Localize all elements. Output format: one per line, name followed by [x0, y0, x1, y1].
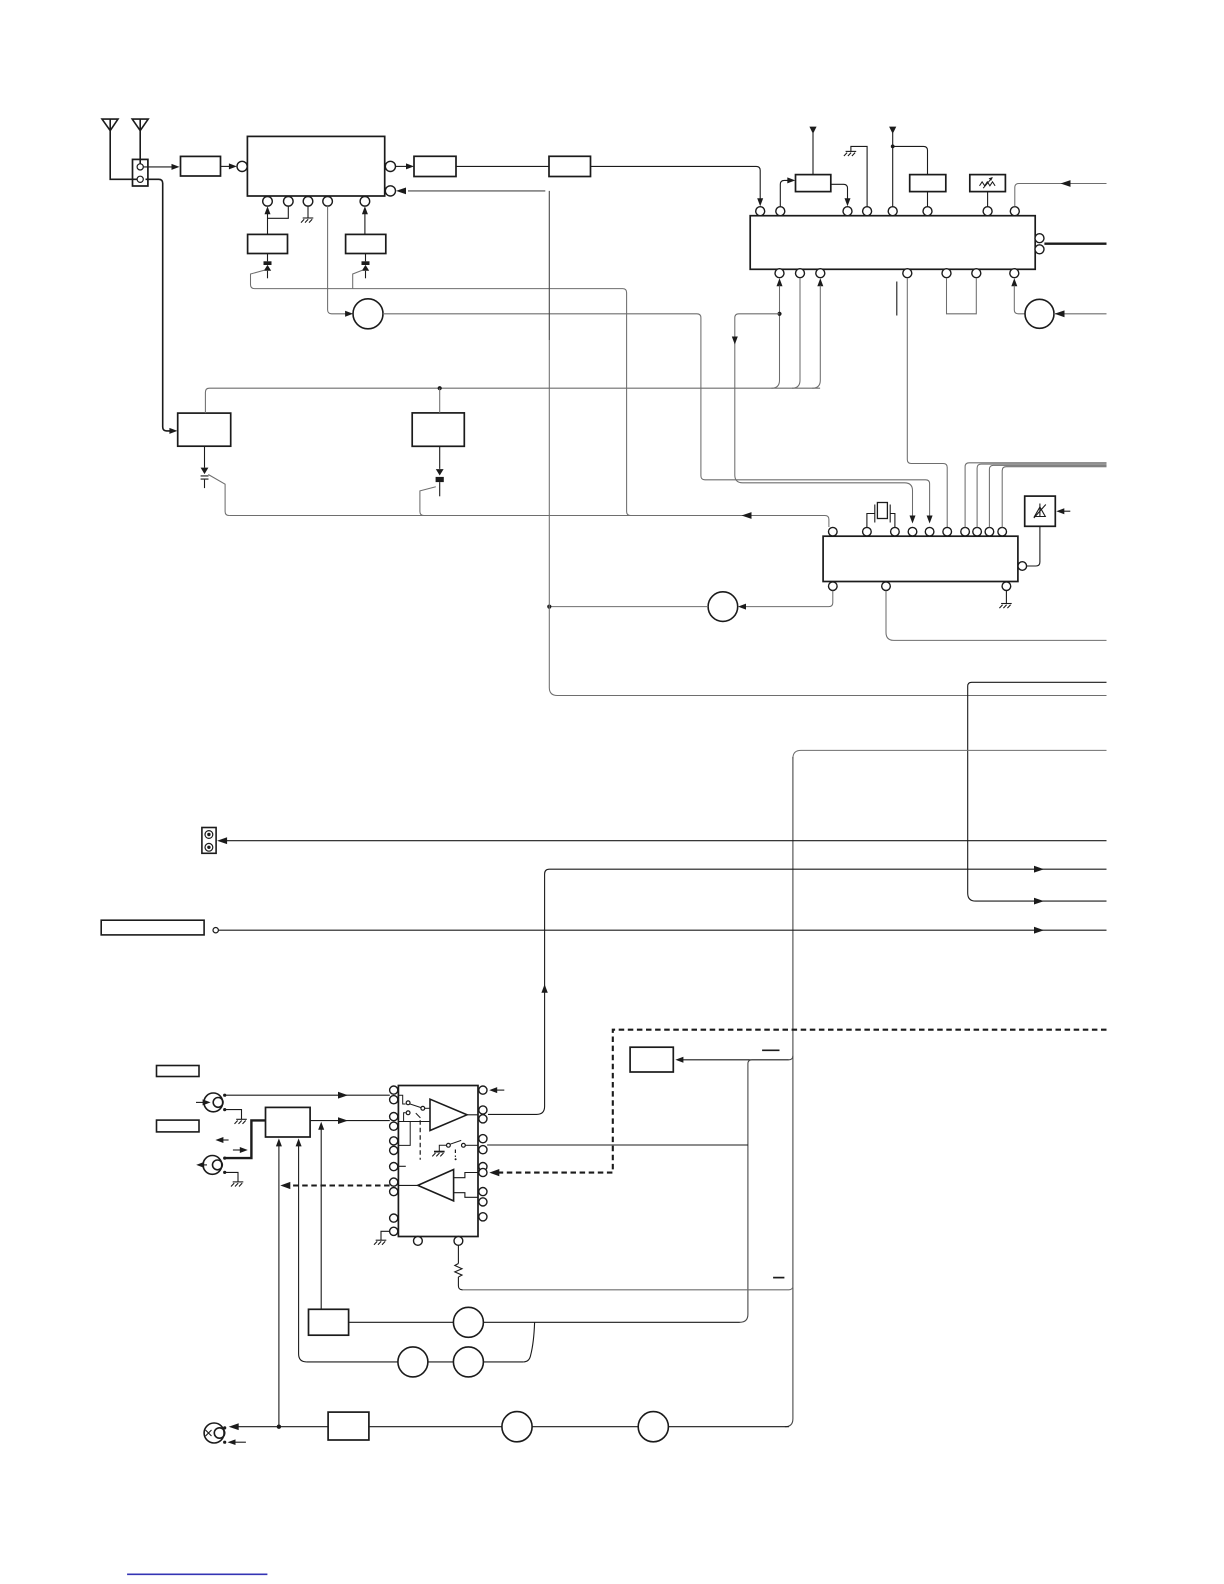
wire into X2 from right [1054, 310, 1107, 317]
supply input arrow above U2 pin5 [889, 127, 896, 207]
wire U2 pin4 to ground [851, 146, 867, 206]
U-link wire U2 bpin5-bpin6 [947, 278, 977, 314]
RCA jack J2 [203, 1156, 222, 1175]
remote sensor line [488, 866, 1107, 1115]
RF amp box [181, 156, 221, 176]
arrow into U2 pin1 [757, 198, 763, 206]
wire U1 pin1 arrow from below [265, 206, 271, 214]
wire U2 pin8 riser to stereo line [1015, 184, 1107, 207]
mid switch contacts [447, 1143, 451, 1147]
antenna switch S1 [133, 159, 148, 186]
U1 bottom pin 2 [284, 197, 294, 207]
tuner IC U1 [247, 136, 384, 196]
arrow up into U2 bpin3 [817, 278, 823, 286]
floating arrow right [233, 1147, 248, 1153]
VCO circle X3 [708, 592, 738, 622]
stub line below U2 [896, 282, 898, 316]
A3 feed vertical 2 with up arrow [296, 1138, 307, 1362]
arrow on dashed line into U4 pin R7 [489, 1169, 499, 1176]
U3 top pin T1 [829, 527, 838, 536]
wire vertical x793 branch to mute box [675, 1056, 793, 1063]
output line arrow into J3 [229, 1423, 239, 1430]
U2 right pin a [1035, 234, 1044, 243]
wire to CN1 with arrow [217, 837, 1106, 844]
wire U2 bpin1 down to supply rail [772, 286, 780, 389]
wire T1 out to U2 pin3 [831, 184, 851, 206]
arrow on VT line pointing left [742, 512, 752, 519]
arrow up joining A3 line [318, 1122, 324, 1130]
wire U1 pin4 to oscillator circle [328, 206, 348, 314]
tuning wire from D4 [420, 487, 436, 516]
label box A1 [157, 1066, 200, 1077]
dash-dot below mid switch [455, 1150, 457, 1161]
U1 bottom pin 4 [323, 197, 333, 207]
wire U2 pin2 to det box [780, 177, 795, 206]
floating arrow into U4 pin R1 [489, 1087, 504, 1093]
junction dot above U2 pin5 [891, 145, 895, 149]
ground inside U4 [432, 1152, 444, 1157]
arrow up into U2 bottom pin1 [777, 278, 783, 286]
filter box T2 [910, 175, 946, 192]
display box DSP [101, 920, 204, 935]
U3 top pin T6 [943, 527, 952, 536]
label tick 1 [762, 1049, 779, 1051]
U4 left pins L1-L11 [390, 1086, 398, 1094]
mech control line with corner [968, 682, 1107, 901]
U2 bottom pin 3 [816, 269, 825, 278]
local osc wire X1 to U3 pin T5 [383, 314, 930, 517]
U2 bottom pin 7 [1010, 269, 1019, 278]
RCA jack J3 (output) [204, 1423, 225, 1443]
U2 top pin 7 [983, 207, 992, 216]
FM coil box B1 [248, 234, 288, 253]
U2 top pin 5 [888, 207, 897, 216]
junction dot on bpin1 wire [777, 312, 781, 316]
resistor R1 under U4 [455, 1245, 463, 1290]
antenna ANT1 [102, 119, 138, 179]
U3 top pin T2 [863, 527, 872, 536]
U1 bottom pin 1 [263, 197, 273, 207]
varactor D2 under B2 [362, 254, 370, 279]
switch contact circle (FM) [137, 164, 143, 170]
U4 L11 ground lead [381, 1231, 390, 1240]
op-amp B output to left pins [398, 1184, 417, 1186]
U2 top pin 8 [1010, 207, 1019, 216]
AM OSC box L2 [412, 413, 464, 446]
speaker output line row3 [237, 1426, 789, 1428]
blue reference underline [127, 1573, 267, 1575]
U2 right pin b [1035, 245, 1044, 254]
op-amp A (upper, right-pointing) [430, 1099, 467, 1130]
ref circle X2 [1025, 299, 1054, 328]
resistor feed line to vertical x793 [462, 1286, 793, 1290]
arrow up into U2 bpin7 [1011, 278, 1017, 286]
output filter circle F5 [638, 1412, 668, 1442]
branch from F1 line down to F2/F3 row [523, 1322, 534, 1362]
arrow on mech line pointing right [1034, 898, 1044, 905]
ground above U2 pin4 [844, 151, 856, 156]
op-amp B feedback to R8/R9 [454, 1193, 478, 1198]
A3 feed vertical 1 with up arrow [276, 1138, 282, 1426]
wire pin1 to coil box B1 [267, 214, 269, 235]
wire U3 B3 to ground [1005, 591, 1007, 604]
U2 bottom pin 5 [942, 269, 951, 278]
op-amp A output to R2/R3 [467, 1114, 478, 1116]
zigzag glyph inside T3 [980, 177, 996, 188]
U4 interior input switch wiring [398, 1095, 430, 1145]
J1 ground lead [225, 1110, 242, 1120]
dashed control line top [496, 1030, 1107, 1173]
label tick 2 [773, 1277, 784, 1279]
junction dot on x549 vertical [547, 605, 551, 609]
U2 bottom pin 4 [903, 269, 912, 278]
wire T3 to U2 pin7 [987, 192, 989, 207]
wire U1 pin5 arrow from coil box B2 [362, 206, 368, 214]
wire RF amp to U1 [221, 163, 237, 169]
ground under U3 B3 [999, 604, 1011, 609]
filter circle F1 [453, 1307, 483, 1337]
U1 bottom pin 5 [360, 197, 370, 207]
supply line U4 R4/R5 to power rail [487, 1144, 748, 1146]
speaker relay box A4 [309, 1309, 349, 1335]
wire antenna switch AM out down to box L1 [146, 179, 172, 431]
IF amp box [549, 156, 591, 176]
RCA jack J1 [204, 1093, 223, 1112]
AM coil box B2 [346, 234, 386, 253]
wire T2 to U2 pin6 [927, 192, 929, 207]
main tuning voltage line VT [229, 516, 829, 528]
wire pin2 branch to pin1 line [268, 206, 289, 218]
power line with corner at x793 [793, 750, 1107, 758]
arrow into box L1 [169, 428, 177, 434]
varactor D1 under B1 [264, 254, 272, 279]
supply input arrow into T1 top [809, 127, 816, 175]
U4 bottom pins [414, 1237, 423, 1246]
J3 terminal dots [223, 1426, 226, 1429]
U2 top pin 1 [756, 207, 765, 216]
junction dot on supply line [438, 386, 442, 390]
wire pin3 to ground [307, 206, 309, 218]
wire U2 bpin4 jog to U3 pin T6 [907, 278, 947, 527]
branch down from mute line at x748 [740, 1060, 752, 1323]
thick signal wire J2 to selector box [225, 1120, 266, 1158]
output mute box A5 [328, 1412, 369, 1440]
varactor D4 under L2 [436, 446, 444, 496]
discriminator box T3 [970, 175, 1006, 192]
U3 top pin T4 [908, 527, 917, 536]
wire U1 out to filter box [396, 163, 415, 169]
U3 top pin T5 [925, 527, 934, 536]
CN1 terminal 1 [205, 831, 213, 839]
switch contact circles inside U4 [406, 1101, 410, 1105]
supply line into L1 top [205, 388, 820, 413]
selector box A3 [266, 1107, 311, 1137]
wire U2 bpin2 down [792, 278, 800, 388]
arrow into U3 pin T4 [910, 516, 916, 524]
AGC feedback wire into U1 [396, 188, 545, 195]
crystal Y1 [867, 503, 895, 528]
label box A2 [157, 1120, 200, 1132]
ground under U1 pin3 [301, 218, 313, 223]
AM RF box L1 [178, 413, 231, 446]
key scan line [218, 927, 1106, 934]
oscillator circle X1 [353, 299, 383, 329]
arrow into oscillator circle [345, 311, 353, 317]
U3 bottom pin B3 [1002, 582, 1011, 591]
op-amp B (lower, left-pointing) [418, 1170, 454, 1201]
PLL IC U3 [823, 536, 1018, 581]
small terminal circle of display box [213, 928, 218, 933]
U1 pin AGC (right bottom) [385, 186, 395, 196]
long vertical bus from U1 AGC down [548, 191, 550, 340]
branch wire to box T2 [893, 146, 928, 174]
wire U2 bpin3 down to supply rail end [812, 286, 820, 389]
U4 right pins R1-R10 [479, 1086, 487, 1094]
J2 terminal dots [223, 1157, 226, 1160]
U3 bottom pin B2 [882, 582, 891, 591]
J1 terminal dots [223, 1094, 226, 1097]
vertical from A3 line down to box A4 [320, 1129, 322, 1309]
filter circle F2 [398, 1347, 428, 1377]
U3 top pin T10 [998, 527, 1007, 536]
wire X3 to serial bus junction [549, 606, 708, 608]
U3 top pin T3 [891, 527, 900, 536]
row2 wire with circles [307, 1361, 524, 1363]
J3 ground lead with small arrow [228, 1439, 246, 1445]
varactor D3 under L1 [201, 446, 209, 488]
mid switch inside U4 [439, 1140, 478, 1151]
tuning voltage branch from D2 [353, 270, 363, 289]
audio amp IC U4 [398, 1086, 478, 1237]
wire filter to amp box [456, 165, 549, 167]
arrow into box T4 [1056, 508, 1070, 514]
dashed line out of U4 L8/L9 [280, 1182, 389, 1189]
U2 top pin 4 [863, 207, 872, 216]
U2 top pin 3 [843, 207, 852, 216]
CN1 terminal 2 [205, 843, 213, 851]
ground at J1 [235, 1119, 247, 1124]
U4 L7 stub [398, 1165, 405, 1167]
op-amp B feedback to R6/R7 [454, 1173, 478, 1178]
U1 bottom pin 3 [303, 197, 313, 207]
audio output thick line [1044, 242, 1106, 244]
wire F1 to power rail branch [483, 1321, 740, 1323]
ground at J2 [231, 1182, 243, 1187]
arrow on stereo line pointing left [1061, 180, 1071, 187]
tuning voltage wire from D1 [251, 270, 631, 515]
U2 bottom pin 1 [775, 269, 784, 278]
wire A4 to filter circle F1 [349, 1321, 454, 1323]
branch into L2 top [439, 388, 441, 413]
U2 top pin 2 [776, 207, 785, 216]
U2 bottom pin 2 [796, 269, 805, 278]
U3 bottom pin B1 [829, 582, 838, 591]
U2 top pin 6 [923, 207, 932, 216]
wire U3 B1 to VCO circle X3 [738, 591, 833, 610]
detector box T1 [796, 175, 831, 192]
junction dot row3 [277, 1425, 281, 1429]
ground at U4 L11 [374, 1240, 386, 1245]
wire box T4 to U3 right pin [1027, 526, 1040, 566]
output filter circle F4 [502, 1412, 532, 1442]
IF/decoder IC U2 [750, 216, 1035, 270]
U3 top pin T7 [961, 527, 970, 536]
short branch wire with down arrow [732, 314, 913, 517]
U1 pin out (right top) [385, 161, 395, 171]
connector CN1 [202, 828, 216, 854]
data bus lines U3 T7-T10 to right edge [965, 463, 1106, 528]
dashed mute control inside U4 [419, 1120, 421, 1160]
wire IF amp to U2 pin1 [591, 166, 761, 201]
U3 top pin T8 [973, 527, 982, 536]
U2 bottom pin 6 [972, 269, 981, 278]
switch contact circle (AM) [137, 176, 143, 182]
antenna ANT2 [132, 119, 148, 164]
J2 ground lead [225, 1172, 238, 1182]
arrow into U3 pin T5 [927, 516, 933, 524]
floating arrow left [215, 1137, 228, 1143]
wire switch to RF amp [143, 164, 179, 170]
filter circle F3 [453, 1347, 483, 1377]
line A3 to U4 input [310, 1117, 390, 1124]
tuning wire from D3 [208, 475, 229, 516]
U1 pin input (left) [237, 161, 247, 171]
IF filter box [414, 156, 456, 176]
arrow out of J2 [196, 1162, 207, 1168]
U3 right pin [1018, 562, 1027, 571]
mute box M1 [630, 1047, 673, 1072]
line J1 to U4 input [225, 1092, 390, 1099]
wire U2 bpin7 to ref circle X2 [1014, 286, 1025, 314]
arrow into J1 [196, 1099, 211, 1105]
IR/remote box T4 [1025, 496, 1056, 526]
wire U3 B2 to right edge [886, 591, 1107, 641]
U3 top pin T9 [985, 527, 994, 536]
glyph inside box T4 [1034, 504, 1046, 519]
